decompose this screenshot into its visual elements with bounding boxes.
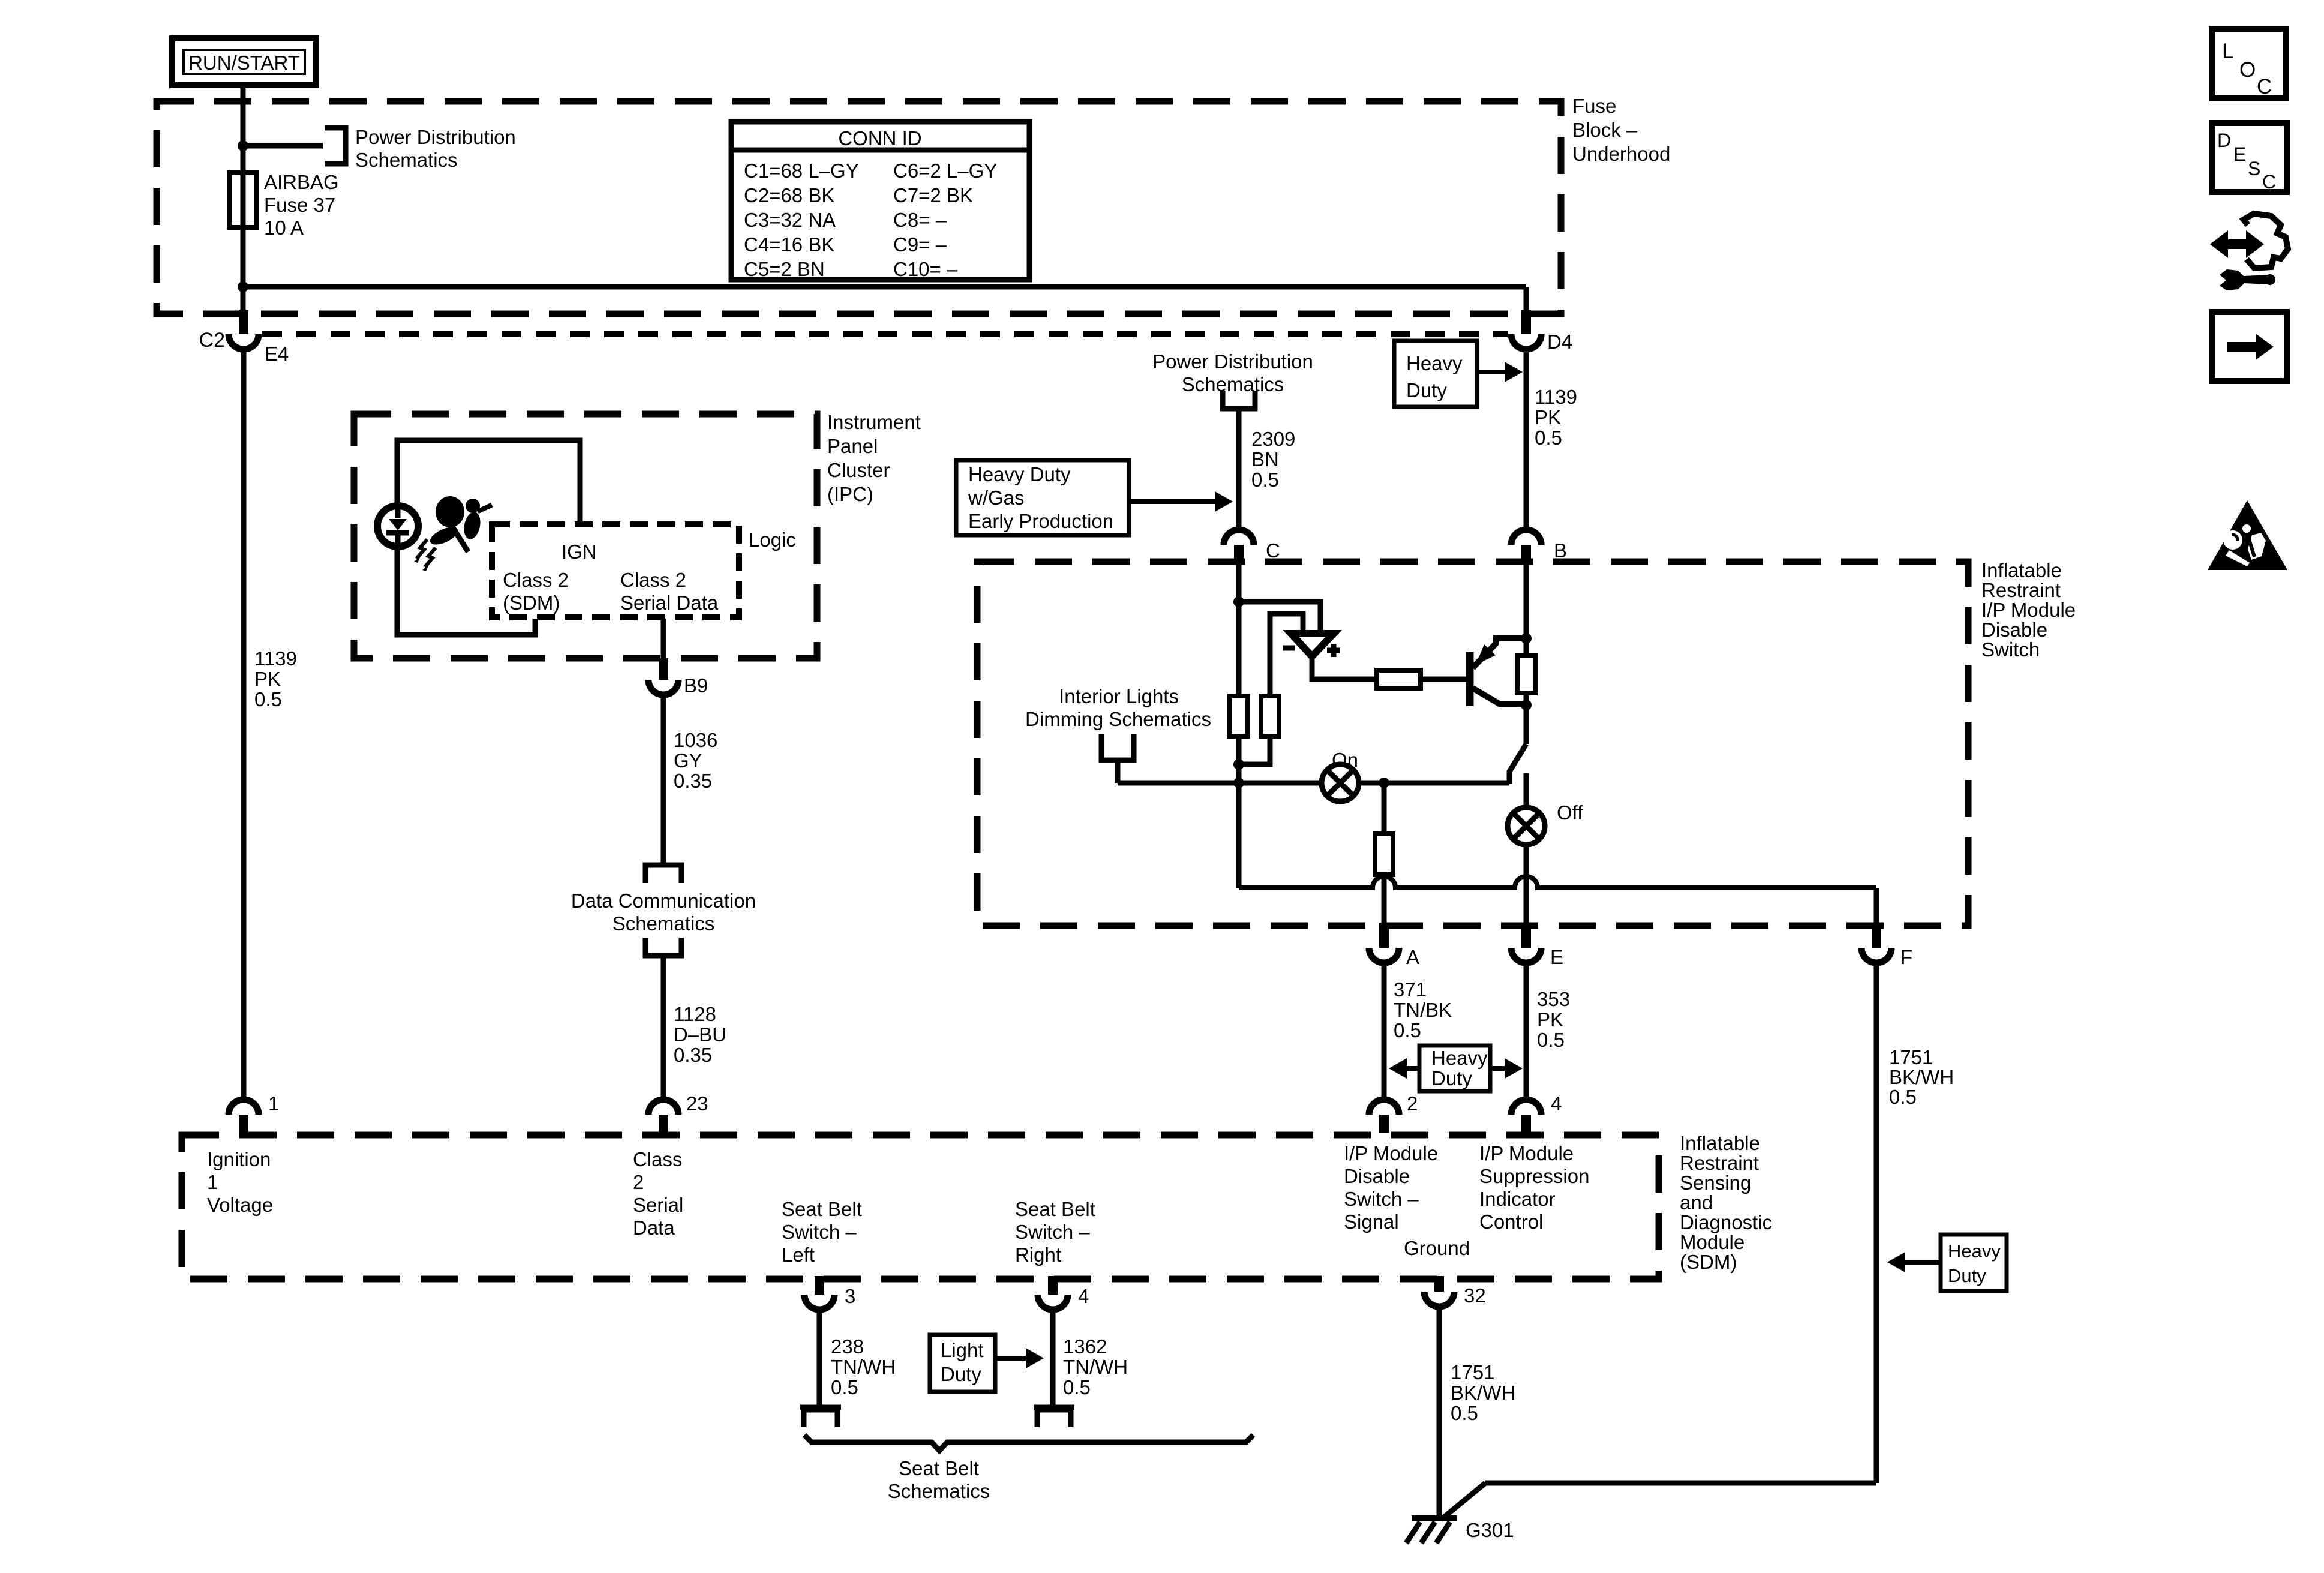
resistor: collector-emitter shunt: [1517, 655, 1535, 693]
symbol: to Power Distribution Schematics: [325, 128, 346, 164]
value label: 371 TN/BK 0.5: [1394, 978, 1452, 1041]
svg-text:Switch: Switch: [1981, 638, 2040, 661]
svg-text:Data Communication: Data Communication: [571, 890, 756, 912]
svg-text:Ground: Ground: [1404, 1237, 1470, 1259]
svg-text:C5=2 BN: C5=2 BN: [744, 258, 825, 280]
svg-text:D: D: [2217, 130, 2231, 151]
On lamp line: [1118, 781, 1509, 786]
svg-text:1128: 1128: [674, 1003, 716, 1025]
svg-text:PK: PK: [1535, 406, 1561, 428]
svg-text:C: C: [2257, 75, 2272, 98]
svg-text:1: 1: [207, 1171, 218, 1193]
wire: ground return to F (with hops): [1239, 783, 1876, 933]
svg-text:0.5: 0.5: [1063, 1376, 1091, 1398]
label: C2: [199, 329, 225, 352]
svg-text:Underhood: Underhood: [1572, 143, 1670, 165]
brace: seat belt schematics group: [804, 1435, 1253, 1451]
svg-text:1751: 1751: [1451, 1361, 1494, 1383]
wire 1362 TN/WH 0.5: [1050, 1310, 1056, 1407]
svg-text:L: L: [2222, 40, 2233, 63]
svg-text:353: 353: [1537, 988, 1570, 1010]
pin label: 4: [1078, 1285, 1089, 1307]
svg-text:Power Distribution: Power Distribution: [355, 126, 516, 148]
wire 371 TN/BK 0.5: [1382, 963, 1387, 1100]
svg-text:1036: 1036: [674, 729, 717, 751]
svg-text:Inflatable: Inflatable: [1680, 1132, 1760, 1154]
wire: A branch to connector: [1382, 875, 1387, 933]
value label: 1751 BK/WH 0.5: [1889, 1046, 1954, 1108]
label: Inflatable Restraint Sensing and Diagnostic Module (SDM): [1680, 1132, 1772, 1273]
svg-text:0.5: 0.5: [1394, 1019, 1421, 1041]
lamp: On indicator: [1322, 764, 1359, 801]
svg-text:Heavy: Heavy: [1406, 352, 1463, 374]
svg-text:Schematics: Schematics: [355, 149, 458, 171]
svg-text:Heavy: Heavy: [1431, 1047, 1488, 1069]
svg-text:(IPC): (IPC): [827, 483, 873, 505]
svg-text:Off: Off: [1557, 801, 1583, 824]
label: Data Communication Schematics: [571, 890, 756, 935]
connector F: [1861, 923, 1891, 963]
wire: Off branch stub: [1524, 773, 1529, 807]
inflatable restraint sensing and diagnostic module dashed box: [182, 1135, 1659, 1279]
wire 1128 D-BU 0.35: [661, 956, 666, 1100]
connector pin 3 (seat belt left): [804, 1276, 834, 1310]
node: emitter junction: [1521, 633, 1532, 644]
airbag indicator circuit wire (IPC): [397, 440, 580, 635]
label: Class 2 (SDM): [503, 569, 569, 614]
symbol: to Seat Belt Schematics (right): [1034, 1407, 1074, 1427]
logic dashed box (IPC): [492, 524, 739, 617]
svg-text:Switch –: Switch –: [782, 1221, 857, 1243]
node: junction to D4 feed: [238, 281, 248, 292]
label: Class 2 Serial Data: [633, 1148, 683, 1239]
svg-text:Restraint: Restraint: [1981, 579, 2061, 601]
svg-text:Instrument: Instrument: [827, 411, 921, 433]
node: comparator feed junction: [1233, 596, 1244, 607]
wire 353 PK 0.5: [1524, 963, 1529, 1100]
svg-text:32: 32: [1464, 1284, 1486, 1307]
svg-text:Signal: Signal: [1344, 1211, 1399, 1233]
svg-text:Class 2: Class 2: [620, 569, 686, 591]
svg-text:PK: PK: [1537, 1008, 1563, 1031]
svg-text:PK: PK: [254, 668, 281, 690]
svg-text:I/P Module: I/P Module: [1479, 1142, 1574, 1164]
svg-text:371: 371: [1394, 978, 1427, 1001]
pin label: 32: [1464, 1284, 1486, 1307]
callout box: Light Duty: [930, 1335, 1044, 1392]
wire: dimming feed to On lamp line: [1115, 760, 1121, 783]
label: IGN: [562, 541, 597, 563]
svg-text:10 A: 10 A: [264, 217, 304, 239]
svg-text:2309: 2309: [1251, 428, 1295, 450]
connector pin 1: [229, 1100, 259, 1133]
label: B9: [684, 674, 708, 697]
label: Seat Belt Switch - Left: [782, 1198, 862, 1266]
wire: RUN/START to fuse: [241, 85, 246, 175]
svg-text:Schematics: Schematics: [612, 912, 715, 935]
svg-text:0.5: 0.5: [1889, 1086, 1917, 1108]
svg-text:1139: 1139: [1535, 386, 1577, 408]
inflatable restraint I/P module disable switch dashed box: [977, 562, 1968, 926]
wire: B to emitter junction: [1524, 562, 1529, 655]
svg-text:I/P Module: I/P Module: [1344, 1142, 1438, 1164]
symbol: to Seat Belt Schematics (left): [800, 1407, 841, 1427]
label: Interior Lights Dimming Schematics: [1025, 685, 1211, 730]
svg-text:Indicator: Indicator: [1479, 1188, 1556, 1210]
wire 238 TN/WH 0.5: [817, 1310, 822, 1407]
wire 1139 PK 0.5 (right, D4 to B): [1524, 349, 1529, 530]
wire: Off lamp to E: [1524, 845, 1529, 933]
wire: divider tap to comparator - input: [1270, 614, 1303, 696]
svg-text:Data: Data: [633, 1217, 675, 1239]
label: AIRBAG Fuse 37 10 A: [264, 171, 339, 239]
svg-text:Suppression: Suppression: [1479, 1165, 1589, 1187]
connector pin 2: [1369, 1100, 1399, 1133]
value label: 353 PK 0.5: [1537, 988, 1570, 1051]
svg-text:I/P Module: I/P Module: [1981, 599, 2076, 621]
svg-text:BK/WH: BK/WH: [1889, 1066, 1954, 1088]
svg-text:GY: GY: [674, 749, 702, 772]
svg-text:D4: D4: [1547, 331, 1572, 353]
label: Fuse Block - Underhood: [1572, 95, 1670, 165]
label: F: [1900, 946, 1912, 968]
svg-text:Control: Control: [1479, 1211, 1543, 1233]
svg-text:Block –: Block –: [1572, 119, 1638, 141]
value label: 1139 PK 0.5: [1535, 386, 1577, 449]
label: E4: [265, 343, 289, 365]
svg-text:Light: Light: [941, 1339, 984, 1361]
label: Seat Belt Switch - Right: [1015, 1198, 1095, 1266]
svg-text:Voltage: Voltage: [207, 1194, 273, 1216]
label: C: [1266, 539, 1280, 562]
svg-text:TN/BK: TN/BK: [1394, 999, 1452, 1021]
ground G301: [1406, 1518, 1457, 1543]
svg-text:E4: E4: [265, 343, 289, 365]
svg-text:B9: B9: [684, 674, 708, 697]
svg-text:C: C: [1266, 539, 1280, 562]
svg-text:Module: Module: [1680, 1231, 1744, 1253]
svg-text:23: 23: [686, 1092, 708, 1115]
svg-text:0.5: 0.5: [1535, 427, 1562, 449]
svg-text:C4=16 BK: C4=16 BK: [744, 233, 834, 256]
wire 1751 BK/WH 0.5 (F to G301): [1874, 963, 1879, 1483]
node: divider bottom junction: [1233, 759, 1244, 770]
svg-text:w/Gas: w/Gas: [968, 487, 1025, 509]
harness dotted line C2/E4 to D4: [262, 331, 1508, 337]
value label: 1362 TN/WH 0.5: [1063, 1335, 1128, 1398]
label: I/P Module Disable Switch - Signal: [1344, 1142, 1438, 1233]
svg-text:Cluster: Cluster: [827, 459, 890, 481]
svg-text:1: 1: [268, 1092, 279, 1115]
fuse block underhood dashed box: [157, 101, 1561, 314]
svg-text:C8= –: C8= –: [893, 209, 947, 231]
svg-text:Duty: Duty: [941, 1363, 981, 1385]
label: A: [1406, 946, 1419, 968]
svg-text:Disable: Disable: [1344, 1165, 1410, 1187]
wire 1036 GY 0.35: [661, 695, 666, 865]
svg-text:C7=2 BK: C7=2 BK: [893, 184, 973, 206]
svg-text:O: O: [2239, 58, 2256, 82]
svg-text:Seat Belt: Seat Belt: [899, 1457, 979, 1479]
pin label: 23: [686, 1092, 708, 1115]
icon: diagnostic arrows and wrench: [2210, 214, 2288, 290]
svg-text:0.5: 0.5: [1251, 469, 1279, 491]
LED light rays: [414, 539, 436, 571]
svg-text:0.5: 0.5: [254, 688, 282, 710]
switch blade: [1509, 744, 1526, 784]
svg-text:On: On: [1332, 749, 1358, 771]
connector pin 23: [648, 1100, 678, 1133]
svg-text:BK/WH: BK/WH: [1451, 1382, 1515, 1404]
svg-text:Heavy Duty: Heavy Duty: [968, 463, 1071, 485]
node: junction above fuse: [238, 140, 248, 151]
label: Ground: [1404, 1237, 1470, 1259]
op-amp comparator U1: [1283, 634, 1340, 657]
svg-text:1139: 1139: [254, 647, 297, 670]
svg-text:and: and: [1680, 1191, 1713, 1214]
svg-text:CONN ID: CONN ID: [838, 127, 921, 149]
svg-text:2: 2: [1407, 1092, 1418, 1115]
pin label: 2: [1407, 1092, 1418, 1115]
label: Inflatable Restraint I/P Module Disable Switch: [1981, 559, 2076, 661]
callout box: Heavy Duty (at D4 wire): [1394, 341, 1523, 407]
RUN/START ignition feed box: [172, 38, 316, 85]
resistor: base series: [1377, 670, 1421, 688]
svg-text:Class: Class: [633, 1148, 683, 1170]
svg-text:C: C: [2262, 171, 2276, 193]
connector E: [1511, 923, 1541, 963]
wire: dividers to On line: [1239, 736, 1270, 783]
lamp: Off indicator: [1508, 807, 1545, 845]
symbol: to Data Communication Schematics (top bracket): [645, 865, 681, 883]
symbol: from Power Distribution Schematics: [1223, 391, 1255, 409]
value label: 1139 PK 0.5: [254, 647, 297, 710]
value label: 1128 D-BU 0.35: [674, 1003, 726, 1066]
svg-text:G301: G301: [1466, 1519, 1514, 1541]
wire 1139 PK 0.5 (left, C2 to SDM pin 1): [241, 349, 247, 1100]
callout box: Heavy Duty w/Gas Early Production: [956, 460, 1233, 535]
svg-text:Duty: Duty: [1406, 379, 1447, 401]
label: D4: [1547, 331, 1572, 353]
icon: DESC: [2212, 123, 2287, 193]
svg-text:Disable: Disable: [1981, 619, 2047, 641]
value label: 2309 BN 0.5: [1251, 428, 1295, 491]
LED indicator symbol: [377, 506, 418, 547]
svg-text:Fuse 37: Fuse 37: [264, 194, 335, 216]
label: Seat Belt Schematics: [888, 1457, 990, 1502]
svg-text:C6=2 L–GY: C6=2 L–GY: [893, 160, 997, 182]
resistor: divider left: [1230, 696, 1248, 736]
svg-text:Seat Belt: Seat Belt: [782, 1198, 862, 1220]
wire: feed across to D4: [243, 287, 1526, 311]
svg-text:S: S: [2248, 158, 2260, 179]
fuse AIRBAG Fuse 37 10A: [229, 173, 257, 227]
node: On line right junction: [1379, 778, 1389, 788]
svg-text:0.5: 0.5: [1537, 1029, 1565, 1051]
value label: 238 TN/WH 0.5: [831, 1335, 896, 1398]
svg-text:Schematics: Schematics: [888, 1480, 990, 1502]
svg-text:A: A: [1406, 946, 1419, 968]
svg-text:Duty: Duty: [1948, 1265, 1986, 1286]
icon: LOC: [2212, 29, 2286, 98]
svg-text:BN: BN: [1251, 448, 1279, 470]
label: I/P Module Suppression Indicator Control: [1479, 1142, 1589, 1233]
svg-text:(SDM): (SDM): [1680, 1251, 1737, 1273]
svg-text:Serial Data: Serial Data: [620, 592, 719, 614]
label: Ignition 1 Voltage: [207, 1148, 273, 1216]
svg-text:Switch –: Switch –: [1015, 1221, 1090, 1243]
svg-text:4: 4: [1551, 1092, 1562, 1115]
svg-text:TN/WH: TN/WH: [831, 1356, 896, 1378]
svg-text:Ignition: Ignition: [207, 1148, 271, 1170]
svg-text:3: 3: [845, 1285, 855, 1307]
svg-text:Power Distribution: Power Distribution: [1152, 350, 1313, 373]
svg-text:Seat Belt: Seat Belt: [1015, 1198, 1095, 1220]
connector pin 4: [1511, 1100, 1541, 1133]
svg-text:Logic: Logic: [749, 529, 796, 551]
pin label: 4: [1551, 1092, 1562, 1115]
svg-text:Switch –: Switch –: [1344, 1188, 1419, 1210]
resistor: divider right: [1261, 696, 1279, 736]
callout box: Heavy Duty (at F wire): [1887, 1235, 2007, 1291]
svg-text:1362: 1362: [1063, 1335, 1107, 1358]
connector pin 32 (ground): [1424, 1276, 1454, 1307]
connector C: [1224, 530, 1254, 563]
connector B9: [648, 658, 678, 695]
svg-text:IGN: IGN: [562, 541, 597, 563]
label: E: [1550, 946, 1563, 968]
svg-text:Left: Left: [782, 1244, 815, 1266]
svg-text:TN/WH: TN/WH: [1063, 1356, 1128, 1378]
connector A: [1369, 923, 1399, 963]
node: On line left junction: [1233, 778, 1244, 788]
label: Off: [1557, 801, 1583, 824]
label: Instrument Panel Cluster (IPC): [827, 411, 921, 505]
svg-text:D–BU: D–BU: [674, 1023, 726, 1046]
value label: 1036 GY 0.35: [674, 729, 717, 792]
callout box: Heavy Duty (between A and E): [1389, 1046, 1523, 1091]
svg-text:C2=68 BK: C2=68 BK: [744, 184, 834, 206]
pin label: 3: [845, 1285, 855, 1307]
instrument panel cluster dashed box: [354, 414, 817, 658]
svg-text:Fuse: Fuse: [1572, 95, 1616, 117]
svg-text:Restraint: Restraint: [1680, 1152, 1759, 1174]
wire 2309 BN 0.5 (to C): [1236, 409, 1242, 530]
connector C2 / E4: [229, 310, 259, 349]
svg-text:Panel: Panel: [827, 435, 878, 457]
symbol: to Interior Lights Dimming Schematics: [1101, 734, 1134, 760]
label: B: [1554, 539, 1567, 562]
svg-text:Serial: Serial: [633, 1194, 683, 1216]
label: Power Distribution Schematics: [355, 126, 516, 171]
svg-text:AIRBAG: AIRBAG: [264, 171, 339, 193]
svg-text:RUN/START: RUN/START: [188, 52, 300, 74]
CONN ID table: [731, 122, 1029, 280]
connector pin 4 (seat belt right): [1038, 1276, 1068, 1310]
svg-text:Class 2: Class 2: [503, 569, 569, 591]
svg-text:Sensing: Sensing: [1680, 1172, 1751, 1194]
svg-text:1751: 1751: [1889, 1046, 1933, 1068]
label: Logic: [749, 529, 796, 551]
airbag warning pictogram: [428, 496, 493, 553]
svg-text:238: 238: [831, 1335, 864, 1358]
svg-text:0.5: 0.5: [831, 1376, 858, 1398]
wire: resistor to transistor base: [1421, 677, 1467, 682]
svg-text:C1=68 L–GY: C1=68 L–GY: [744, 160, 859, 182]
transistor Q1: [1470, 638, 1526, 706]
wire: C into switch: [1236, 562, 1242, 696]
svg-text:0.5: 0.5: [1451, 1402, 1478, 1424]
svg-text:4: 4: [1078, 1285, 1089, 1307]
svg-text:(SDM): (SDM): [503, 592, 560, 614]
pin label: 1: [268, 1092, 279, 1115]
svg-text:C9= –: C9= –: [893, 233, 947, 256]
label: Class 2 Serial Data: [620, 569, 719, 614]
value label: 1751 BK/WH 0.5: [1451, 1361, 1515, 1424]
svg-text:0.35: 0.35: [674, 1044, 712, 1066]
svg-text:B: B: [1554, 539, 1567, 562]
symbol: from Data Communication Schematics (bottom bracket): [645, 938, 681, 956]
wire: fuse to C2 connector: [241, 227, 246, 313]
wire: class 2 serial data out of IPC: [661, 619, 666, 665]
svg-text:Right: Right: [1015, 1244, 1061, 1266]
svg-text:E: E: [2233, 143, 2246, 165]
wire: A branch with resistor: [1382, 783, 1387, 834]
resistor: A branch: [1375, 834, 1393, 875]
wire: comparator output to base resistor: [1312, 659, 1377, 679]
wire: collector to switch blade: [1524, 693, 1529, 744]
svg-text:C10= –: C10= –: [893, 258, 958, 280]
svg-text:Diagnostic: Diagnostic: [1680, 1211, 1772, 1233]
svg-text:C2: C2: [199, 329, 225, 352]
svg-text:F: F: [1900, 946, 1912, 968]
label: On: [1332, 749, 1358, 771]
icon: arrow box: [2212, 312, 2287, 381]
wire: tap to power distribution bracket: [243, 143, 323, 149]
wire: junction to comparator + input: [1239, 602, 1320, 634]
svg-text:2: 2: [633, 1171, 644, 1193]
svg-text:E: E: [1550, 946, 1563, 968]
icon: airbag warning triangle: [2208, 500, 2287, 570]
svg-text:Dimming Schematics: Dimming Schematics: [1025, 708, 1211, 730]
svg-text:Inflatable: Inflatable: [1981, 559, 2062, 581]
label: G301: [1466, 1519, 1514, 1541]
svg-text:Heavy: Heavy: [1948, 1241, 2001, 1262]
node: collector junction: [1521, 700, 1532, 710]
connector B: [1511, 530, 1541, 563]
svg-text:Interior Lights: Interior Lights: [1059, 685, 1179, 707]
svg-text:Schematics: Schematics: [1182, 373, 1284, 395]
label: Power Distribution Schematics (center): [1152, 350, 1313, 395]
svg-text:Early Production: Early Production: [968, 510, 1113, 532]
wire: F return to ground: [1441, 1483, 1876, 1520]
svg-text:Duty: Duty: [1431, 1067, 1472, 1089]
svg-text:C3=32 NA: C3=32 NA: [744, 209, 836, 231]
wire 1751 BK/WH 0.5 (pin 32 to G301): [1437, 1307, 1442, 1518]
connector D4: [1511, 310, 1541, 349]
svg-text:0.35: 0.35: [674, 770, 712, 792]
